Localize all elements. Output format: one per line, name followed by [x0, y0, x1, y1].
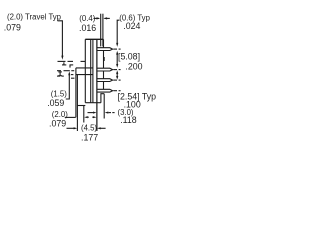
dimension 2.54 line: [116, 70, 118, 80]
body inner line c redraw: [96, 39, 98, 131]
svg-text:.016: .016: [79, 23, 96, 33]
top plate lever: [101, 14, 103, 47]
body inner line a: [90, 39, 92, 102]
body inner line b: [92, 39, 94, 102]
svg-text:.079: .079: [49, 119, 66, 129]
arrow left of top plate: [94, 17, 101, 19]
svg-text:(4.5): (4.5): [81, 123, 97, 132]
svg-text:.118: .118: [120, 115, 137, 125]
dashed segment at actuator bottom level: [71, 74, 73, 76]
pin 1: [97, 48, 112, 51]
dashed row 2: [62, 64, 73, 66]
dimension text (0.6) Typ: [119, 13, 150, 22]
dashed row 3: [57, 70, 74, 72]
dimension text .100: [124, 100, 141, 110]
pin 4 extension dashes: [113, 90, 120, 92]
notch on right edge: [103, 57, 104, 61]
body left edge: [84, 39, 86, 102]
dimension text (0.4): [79, 14, 95, 23]
tick b: [69, 65, 71, 67]
pin 3: [97, 79, 112, 82]
dimension text .059: [47, 98, 64, 108]
body top edge: [85, 38, 103, 40]
body bottom edge: [85, 102, 101, 104]
dimension 4.5 right arrow: [97, 127, 106, 129]
leader 1.5: [66, 71, 71, 99]
dimension text .177: [81, 133, 98, 143]
dimension 1.5 ibeam: [58, 72, 62, 76]
dimension text [2.54] Typ: [118, 91, 157, 101]
dimension text .079 lower: [49, 119, 66, 129]
dimension text .079 top left: [4, 23, 21, 33]
dimension text [5.08]: [118, 52, 140, 62]
body lower right step: [101, 94, 104, 103]
svg-text:[5.08]: [5.08]: [118, 52, 140, 62]
dimension text .200: [125, 62, 142, 72]
pin 2 extension dashes: [113, 69, 120, 71]
dashed row 4: [57, 75, 64, 77]
body inner line c: [96, 39, 98, 131]
pin 4: [97, 89, 112, 92]
svg-text:.200: .200: [125, 62, 142, 72]
dimension foot right: [103, 94, 105, 119]
dimension 3.0 arrows: [84, 116, 96, 118]
dimension text (3.0): [118, 108, 134, 117]
dimension text (2.0) lower: [52, 110, 68, 119]
svg-text:.177: .177: [81, 133, 98, 143]
dimension text .016: [79, 23, 96, 33]
dimension 2.0 arrows mid: [88, 112, 115, 114]
pin 1 extension dashes: [113, 48, 120, 50]
dashed row 1: [58, 60, 86, 62]
svg-text:.024: .024: [123, 21, 140, 31]
dimension text (2.0) Travel Typ: [7, 13, 62, 22]
svg-text:(2.0) Travel Typ: (2.0) Travel Typ: [7, 13, 62, 22]
frame front edge: [76, 75, 78, 131]
leader 0.6 pin thickness: [116, 20, 119, 47]
dimension text (4.5): [81, 123, 97, 132]
body right edge: [103, 39, 105, 89]
frame bottom lip: [77, 105, 85, 107]
dimension 4.5 left arrow: [67, 127, 78, 129]
svg-text:(0.4): (0.4): [79, 14, 95, 23]
dimension text (1.5): [51, 90, 67, 99]
leader travel dimension: [58, 21, 64, 60]
tick a: [63, 62, 65, 64]
actuator outline: [76, 68, 93, 117]
svg-text:.059: .059: [47, 98, 64, 108]
dimension 5.08 line: [116, 51, 118, 68]
svg-text:.079: .079: [4, 23, 21, 33]
extension line left foot: [83, 106, 85, 123]
pin 2: [97, 68, 112, 71]
leader 2.0 lower: [65, 116, 76, 118]
dimension text .024: [123, 21, 140, 31]
arrow right of top plate: [103, 17, 109, 19]
pin 3 extension dashes: [113, 79, 120, 81]
dashed segment below actuator: [71, 77, 74, 79]
dimension text .118: [120, 115, 137, 125]
